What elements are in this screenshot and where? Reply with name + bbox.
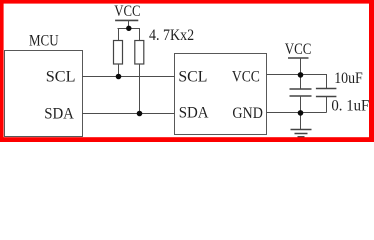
wire R2 top lead (139, 28, 141, 41)
resistor R1 body (114, 41, 123, 65)
junction dot VCC node (298, 72, 304, 78)
junction dot SDA/R2 (137, 111, 143, 117)
svg-text:VCC: VCC (114, 3, 140, 20)
wire SCL net (82, 76, 175, 78)
wire VCC stem right (300, 58, 302, 75)
svg-text:MCU: MCU (29, 33, 59, 50)
I2C device box U1 (175, 54, 267, 135)
wire C2 bottom to GND wire (326, 97, 328, 113)
svg-text:10uF: 10uF (334, 70, 363, 87)
wire branch to C2 top (301, 75, 327, 89)
wire VCC node to C1 (300, 75, 302, 90)
wire GND net (267, 112, 327, 114)
capacitor C2 plates (316, 88, 337, 90)
junction dot VCC split (126, 26, 131, 31)
wire C1 to GND node (300, 96, 302, 113)
wire ground stem (300, 112, 302, 130)
capacitor C1 plates (290, 88, 312, 90)
wire split bar (118, 28, 141, 30)
wire R2 bottom lead (crosses SCL, joins SDA) (139, 64, 141, 114)
ground symbol (291, 130, 312, 137)
wire U1 VCC pin to rail (267, 74, 301, 76)
svg-text:SCL: SCL (178, 69, 207, 86)
svg-text:SCL: SCL (46, 69, 76, 86)
MCU box (5, 51, 83, 137)
svg-text:4. 7Kx2: 4. 7Kx2 (149, 27, 194, 44)
svg-text:VCC: VCC (285, 41, 312, 58)
junction dot SCL/R1 (116, 74, 122, 80)
junction dot GND node (298, 110, 304, 116)
resistor R2 body (135, 41, 144, 65)
wire SDA net (82, 113, 175, 115)
svg-text:0. 1uF: 0. 1uF (331, 98, 369, 115)
red border frame (0, 0, 374, 142)
svg-text:VCC: VCC (232, 69, 260, 86)
wire R1 bottom lead (118, 64, 120, 77)
svg-text:GND: GND (232, 105, 263, 122)
wire R1 top lead (118, 28, 120, 41)
wire VCC stem (128, 20, 130, 28)
svg-text:SDA: SDA (44, 105, 74, 122)
svg-text:SDA: SDA (179, 105, 209, 122)
